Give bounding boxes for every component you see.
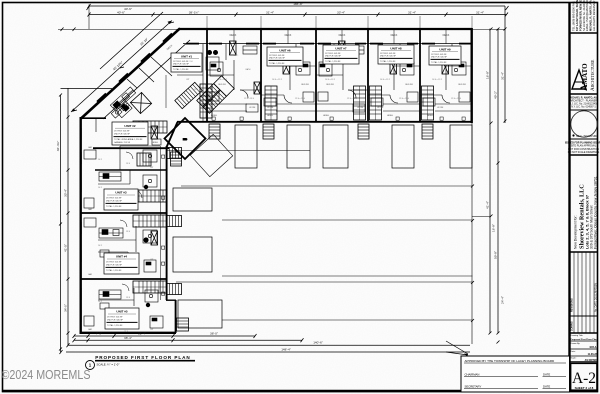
svg-text:UNIT #5: UNIT #5 xyxy=(116,310,128,314)
rotated parking pad at corner xyxy=(190,134,232,176)
svg-text:W.I.C.: W.I.C. xyxy=(234,55,239,57)
svg-text:SECRETARY: SECRETARY xyxy=(465,385,482,389)
svg-text:LEVEL: LEVEL xyxy=(323,115,330,117)
patio rectangles right of left wing xyxy=(173,188,222,328)
svg-text:BATH: BATH xyxy=(246,68,251,71)
left wing rear wall window segments xyxy=(80,128,82,322)
svg-text:11-06-23: 11-06-23 xyxy=(588,353,598,356)
corner kitchen island xyxy=(206,57,219,70)
interior lower walls xyxy=(207,103,472,105)
deck rear wall line xyxy=(183,43,472,45)
svg-text:UNIT #6: UNIT #6 xyxy=(279,48,291,52)
svg-text:LIV RM: LIV RM xyxy=(377,107,384,109)
heavier bottom sheet border xyxy=(2,390,598,393)
svg-text:CHAIRMAN: CHAIRMAN xyxy=(465,373,480,377)
corner diagonal outer wall xyxy=(81,28,180,118)
svg-text:UNIT #2: UNIT #2 xyxy=(124,124,136,128)
svg-text:1ST FLR: 645 SF: 1ST FLR: 645 SF xyxy=(431,54,447,56)
svg-text:12'-0 x 13'-4: 12'-0 x 13'-4 xyxy=(451,98,461,100)
svg-text:PROPOSED FIRST FLOOR PLAN: PROPOSED FIRST FLOOR PLAN xyxy=(95,355,190,360)
svg-text:2ND FLR: 645 SF: 2ND FLR: 645 SF xyxy=(173,64,190,66)
room dim smudges xyxy=(98,55,461,333)
left vertical dimension lines xyxy=(60,95,62,352)
svg-text:SHEET 2 of 8: SHEET 2 of 8 xyxy=(575,386,594,390)
credentials text block xyxy=(569,96,598,108)
svg-text:GAR: GAR xyxy=(88,146,93,149)
attic access X box xyxy=(130,92,151,113)
svg-text:13'-6: 13'-6 xyxy=(124,331,128,333)
svg-text:31'-4": 31'-4" xyxy=(138,332,146,336)
svg-text:10'-6 x 11'-2: 10'-6 x 11'-2 xyxy=(272,79,282,81)
svg-text:1ST FLR: 645 SF: 1ST FLR: 645 SF xyxy=(325,53,341,55)
architect address block (vertical tiny text) xyxy=(572,0,596,31)
approval box leader arrows xyxy=(446,341,468,354)
extension lines from party walls to dim line xyxy=(207,16,472,28)
top wing unit separation walls xyxy=(206,29,208,122)
drawing title callout circle 1 xyxy=(86,361,95,370)
left wing bottom wall xyxy=(80,332,176,334)
svg-text:1ST FLR: 645 SF: 1ST FLR: 645 SF xyxy=(114,131,130,133)
inner corner stoop xyxy=(171,152,182,166)
svg-text:33'-4": 33'-4" xyxy=(64,189,68,197)
unit2 stair xyxy=(133,121,167,133)
top unit dimension line xyxy=(89,14,507,16)
unit4 stair xyxy=(133,215,167,227)
bay2 stair (against x=261) xyxy=(265,86,277,120)
bay5 interior (420-473) xyxy=(420,44,472,106)
svg-text:Drawing Title:: Drawing Title: xyxy=(571,334,584,337)
svg-text:BED RM: BED RM xyxy=(326,84,334,86)
svg-text:Date:: Date: xyxy=(571,350,576,353)
svg-text:UNIT #7: UNIT #7 xyxy=(335,46,347,50)
bay2 interior (261-316) xyxy=(261,44,316,106)
svg-text:TEL: (609) 693-8100 FAX: (609: TEL: (609) 693-8100 FAX: (609) 693-8102 xyxy=(572,0,576,31)
svg-text:31'-4": 31'-4" xyxy=(266,10,274,14)
svg-text:38'-4": 38'-4" xyxy=(124,336,132,340)
svg-text:LEVEL: LEVEL xyxy=(211,115,218,117)
svg-text:38'-1¼": 38'-1¼" xyxy=(189,10,199,14)
svg-text:LEVEL: LEVEL xyxy=(427,115,434,117)
svg-text:186'-8": 186'-8" xyxy=(293,2,303,6)
svg-text:GAR: GAR xyxy=(88,208,93,211)
svg-text:TOTAL LIVING AREA: 1,290 SF: TOTAL LIVING AREA: 1,290 SF xyxy=(114,138,143,141)
svg-text:DATE: DATE xyxy=(543,385,550,389)
svg-text:DATE: DATE xyxy=(543,373,550,377)
svg-text:Scale:: Scale: xyxy=(571,358,577,360)
svg-text:BED RM: BED RM xyxy=(405,84,413,86)
left wing inner front wall line xyxy=(160,146,162,300)
svg-text:33'-4": 33'-4" xyxy=(337,10,345,14)
svg-text:No. DATE DESCRIPTION: No. DATE DESCRIPTION xyxy=(594,283,597,312)
unit label box UNIT #6 (bay2) xyxy=(267,47,303,66)
svg-text:31'-4": 31'-4" xyxy=(408,10,416,14)
svg-text:DECK: DECK xyxy=(230,34,237,37)
svg-text:GAR: GAR xyxy=(88,328,93,331)
svg-text:2ND FLR: 645 SF: 2ND FLR: 645 SF xyxy=(325,56,342,58)
svg-text:N.Y. LIC. No. 034567-1: N.Y. LIC. No. 034567-1 xyxy=(571,105,596,108)
unit label box UNIT #7 (bay3) xyxy=(323,45,359,64)
svg-text:10'-6 x 11'-2: 10'-6 x 11'-2 xyxy=(217,79,227,81)
bay3 interior (316-368) xyxy=(316,44,368,112)
svg-text:1ST FLR: 645 SF: 1ST FLR: 645 SF xyxy=(106,197,122,199)
svg-text:SCALE: ¼" = 1'-0": SCALE: ¼" = 1'-0" xyxy=(97,363,120,367)
unit label box UNIT #3 xyxy=(104,189,138,210)
svg-text:TOTAL: 1,290 SF: TOTAL: 1,290 SF xyxy=(106,205,122,208)
svg-text:TOTAL: 1,290 SF: TOTAL: 1,290 SF xyxy=(380,60,396,63)
diagonal dimension line near corner xyxy=(71,21,172,113)
svg-text:GARAGE: 255 SF: GARAGE: 255 SF xyxy=(114,141,131,144)
patio rectangles below top wing xyxy=(235,125,472,168)
svg-text:Drawn By:: Drawn By: xyxy=(571,342,581,345)
entry stoops below top wing xyxy=(209,124,220,139)
svg-text:M.R.A.: M.R.A. xyxy=(590,346,598,349)
svg-text:40'-6": 40'-6" xyxy=(124,7,132,11)
svg-text:FORKED RIVER, NEW JERSEY 08731: FORKED RIVER, NEW JERSEY 08731 xyxy=(578,0,582,31)
ticks on top dim line xyxy=(61,4,509,31)
project title (vertical) xyxy=(574,176,598,249)
svg-text:©2024 MOREMLS: ©2024 MOREMLS xyxy=(2,368,91,382)
svg-text:10'-6 x 11'-2: 10'-6 x 11'-2 xyxy=(325,79,335,81)
level labels at unit fronts xyxy=(152,115,434,144)
svg-text:LEVEL: LEVEL xyxy=(387,115,394,117)
approval box xyxy=(461,356,570,392)
left wing unit separation walls xyxy=(81,117,106,119)
drawing info rows xyxy=(570,334,597,362)
title block left border xyxy=(568,2,570,392)
svg-text:9'-8: 9'-8 xyxy=(190,61,193,63)
corner kitchen counters xyxy=(110,87,141,118)
svg-text:2ND FLR: 645 SF: 2ND FLR: 645 SF xyxy=(106,264,123,266)
unit5 interior (y279-333) xyxy=(84,288,163,328)
svg-text:LIV RM: LIV RM xyxy=(267,107,274,109)
left wing porch posts xyxy=(162,155,165,295)
svg-text:TOTAL: 1,290 SF: TOTAL: 1,290 SF xyxy=(269,62,285,65)
svg-text:2ND FLR: 645 SF: 2ND FLR: 645 SF xyxy=(431,57,448,59)
top overall dimension line xyxy=(89,5,505,7)
svg-text:BED RM: BED RM xyxy=(218,84,226,86)
svg-text:TOTAL: 1,290 SF: TOTAL: 1,290 SF xyxy=(173,68,189,71)
corner diagonal stair run xyxy=(175,82,202,108)
svg-text:10'-6 x 11'-2: 10'-6 x 11'-2 xyxy=(380,79,390,81)
wardrobe X-boxes in top wing xyxy=(151,41,449,245)
courtyard extension lines xyxy=(167,151,473,321)
svg-text:12'-0 x 13'-4: 12'-0 x 13'-4 xyxy=(244,98,254,100)
svg-text:12'-0 x 13'-4: 12'-0 x 13'-4 xyxy=(399,98,409,100)
svg-text:UNIT #1: UNIT #1 xyxy=(181,54,193,58)
svg-text:ZONING: ZONING xyxy=(571,321,574,331)
corner vertical stair run xyxy=(200,84,212,118)
svg-text:AS NOTED: AS NOTED xyxy=(585,359,598,362)
svg-text:1ST FLR: 645 SF: 1ST FLR: 645 SF xyxy=(380,53,396,55)
svg-text:10'-2: 10'-2 xyxy=(98,187,102,189)
unit5 stair xyxy=(133,281,167,293)
svg-text:140'-6": 140'-6" xyxy=(313,341,323,345)
svg-text:LIV RM: LIV RM xyxy=(249,107,256,109)
deck labels xyxy=(166,34,450,51)
bay5 stair (against x=420) xyxy=(422,86,434,120)
bottom-left unit stoop xyxy=(177,318,189,331)
corner unit garage stair xyxy=(137,153,151,166)
left wing left outer wall xyxy=(79,117,81,334)
svg-text:11'-0: 11'-0 xyxy=(194,89,198,91)
unit4 interior (y213-279) xyxy=(84,218,157,272)
svg-text:12'-0 x 13'-4: 12'-0 x 13'-4 xyxy=(295,98,305,100)
svg-text:2ND FLR: 645 SF: 2ND FLR: 645 SF xyxy=(114,134,131,136)
svg-text:TOTAL: 1,290 SF: TOTAL: 1,290 SF xyxy=(431,61,447,64)
svg-text:41'-4": 41'-4" xyxy=(486,201,490,209)
svg-text:SEAL / SIGNATURE: SEAL / SIGNATURE xyxy=(576,135,598,138)
unit label box UNIT #4 xyxy=(104,253,139,274)
svg-text:1ST FLR: 645 SF: 1ST FLR: 645 SF xyxy=(106,261,122,263)
left wing right wall xyxy=(166,146,168,300)
svg-text:10'-2: 10'-2 xyxy=(98,159,102,161)
svg-text:UNIT #8: UNIT #8 xyxy=(390,46,402,50)
svg-text:24'-4": 24'-4" xyxy=(501,296,505,304)
svg-text:31'-4": 31'-4" xyxy=(501,72,505,80)
svg-text:59'-8": 59'-8" xyxy=(494,251,498,259)
generic interior walls bay1 (207-261) xyxy=(207,44,261,112)
svg-text:LIV RM: LIV RM xyxy=(357,107,364,109)
svg-text:2ND FLR: 645 SF: 2ND FLR: 645 SF xyxy=(269,58,286,60)
svg-text:A-2: A-2 xyxy=(572,370,596,387)
svg-text:41'-5": 41'-5" xyxy=(64,244,68,252)
inner diagonal corridor wall xyxy=(103,40,190,119)
room name labels xyxy=(88,79,466,331)
inner corner diagonal wall xyxy=(167,122,178,147)
svg-text:10'-6 x 11'-2: 10'-6 x 11'-2 xyxy=(432,79,442,81)
bay1 diagonal entry stair system at inner corner xyxy=(197,76,234,113)
svg-text:617 LACEY ROAD, SUITE B: 617 LACEY ROAD, SUITE B xyxy=(575,0,579,31)
revision table xyxy=(569,252,598,333)
svg-text:49'-2": 49'-2" xyxy=(494,91,498,99)
svg-text:Forked River, Ocean County, Ne: Forked River, Ocean County, New Jersey 0… xyxy=(593,176,597,249)
svg-text:DO NOT SCALE DRAWINGS: DO NOT SCALE DRAWINGS xyxy=(568,151,600,154)
svg-text:38'-0": 38'-0" xyxy=(210,332,218,336)
svg-text:148'-4": 148'-4" xyxy=(281,347,291,351)
professional seal circle xyxy=(571,111,597,137)
unit label box UNIT #2 xyxy=(112,122,148,145)
svg-text:TOTAL: 1,290 SF: TOTAL: 1,290 SF xyxy=(325,60,341,63)
svg-text:MICHAEL R. AMATO, AIA, ARCHITE: MICHAEL R. AMATO, AIA, ARCHITECT xyxy=(589,0,593,31)
bay4 stair (against x=368) xyxy=(370,86,382,120)
svg-text:13'-6: 13'-6 xyxy=(126,231,130,233)
svg-text:2ND FLR: 645 SF: 2ND FLR: 645 SF xyxy=(107,319,124,321)
entry stoops right of left wing xyxy=(167,148,182,159)
diagonal wall window segments xyxy=(97,34,172,102)
svg-text:12'-0 x 13'-4: 12'-0 x 13'-4 xyxy=(347,98,357,100)
issue block xyxy=(565,141,600,154)
dimension labels xyxy=(56,2,505,351)
svg-text:New Development for:: New Development for: xyxy=(574,215,578,249)
svg-text:REVISIONS: REVISIONS xyxy=(571,298,574,312)
svg-text:16'-8": 16'-8" xyxy=(492,224,496,232)
svg-text:31'-4": 31'-4" xyxy=(476,10,484,14)
top wing bottom wall xyxy=(177,121,473,123)
bay3 stair (against x=368) xyxy=(354,86,366,120)
triangle A glyph xyxy=(572,70,586,89)
svg-text:EMAIL: INFO@AMATOARCH.COM: EMAIL: INFO@AMATOARCH.COM xyxy=(585,0,589,31)
svg-text:2ND FLR: 645 SF: 2ND FLR: 645 SF xyxy=(380,56,397,58)
porch edge line along top wing front xyxy=(207,111,472,120)
svg-text:16'-8": 16'-8" xyxy=(486,71,490,79)
svg-text:1ST FLR: 645 SF: 1ST FLR: 645 SF xyxy=(173,61,189,63)
svg-text:APPROVED BY THE TOWNSHIP O: APPROVED BY THE TOWNSHIP OF LACEY PLANNI… xyxy=(465,359,556,363)
unit label box UNIT #5 xyxy=(105,308,139,329)
svg-text:TOTAL: 1,290 SF: TOTAL: 1,290 SF xyxy=(106,269,122,272)
svg-text:GAR: GAR xyxy=(88,273,93,276)
svg-text:BED: BED xyxy=(183,139,188,141)
unit label box UNIT #9 (bay5) xyxy=(429,46,461,65)
bay1 wardrobe by party wall xyxy=(254,82,260,94)
svg-text:Proposed First Floor Plan: Proposed First Floor Plan xyxy=(570,338,597,341)
svg-text:LIV RM: LIV RM xyxy=(437,107,444,109)
unit2 interior (y118-170) xyxy=(84,118,160,170)
left wing extra fixtures xyxy=(100,139,161,309)
svg-text:1ST FLR: 645 SF: 1ST FLR: 645 SF xyxy=(107,316,123,318)
svg-text:BED RM: BED RM xyxy=(301,84,309,86)
section divider lines xyxy=(569,32,598,34)
deck divider half-bay lines xyxy=(234,29,446,44)
unit label box UNIT #8 (bay4) xyxy=(378,45,414,64)
svg-text:BED RM: BED RM xyxy=(458,84,466,86)
svg-text:ALL RIGHTS RESERVED © 2023: ALL RIGHTS RESERVED © 2023 xyxy=(592,0,596,31)
unit label box UNIT #1 (corner) xyxy=(171,53,202,72)
svg-text:13'-6: 13'-6 xyxy=(126,297,130,299)
svg-text:LEVEL: LEVEL xyxy=(267,115,274,117)
bottom dimension lines xyxy=(74,335,255,337)
top wing top outer wall xyxy=(179,28,472,30)
svg-text:10'-2: 10'-2 xyxy=(98,301,102,303)
corner unit diamond garage room protruding at inner corner xyxy=(165,118,206,159)
svg-text:UNIT #9: UNIT #9 xyxy=(439,47,451,51)
svg-text:TOTAL: 1,290 SF: TOTAL: 1,290 SF xyxy=(107,324,123,327)
svg-text:NJ LICENSE No. 21AI01234500: NJ LICENSE No. 21AI01234500 xyxy=(582,0,586,31)
svg-text:10'-2: 10'-2 xyxy=(98,245,102,247)
bay4 interior (368-420) xyxy=(368,44,420,106)
deck rear wall window segments xyxy=(186,43,471,45)
corner unit extra partitions xyxy=(127,57,172,88)
svg-text:2ND FLR: 645 SF: 2ND FLR: 645 SF xyxy=(106,200,123,202)
top wing right outer wall xyxy=(471,28,473,123)
sheet number A-2 xyxy=(571,364,597,391)
svg-text:1ST FLR: 645 SF: 1ST FLR: 645 SF xyxy=(269,55,285,57)
unit3 stair xyxy=(133,190,167,202)
svg-text:AMATO: AMATO xyxy=(579,63,589,91)
svg-text:UNIT #4: UNIT #4 xyxy=(116,255,128,259)
svg-text:7'-0": 7'-0" xyxy=(96,332,102,336)
right vertical dimension lines xyxy=(489,29,491,334)
svg-text:UNIT #3: UNIT #3 xyxy=(115,191,127,195)
bottom-left unit right wall xyxy=(175,300,177,333)
unit3 interior (y170-213) xyxy=(84,170,157,208)
svg-text:LEVEL: LEVEL xyxy=(152,142,159,144)
Amato Architecture logo xyxy=(572,59,596,91)
corner interior partitions xyxy=(177,74,203,76)
svg-text:34'-0": 34'-0" xyxy=(64,304,68,312)
svg-text:13'-6: 13'-6 xyxy=(126,163,130,165)
corner bath fixtures xyxy=(111,101,129,118)
courtyard right edge extension xyxy=(471,123,473,344)
svg-text:46'-4¾": 46'-4¾" xyxy=(56,141,60,151)
